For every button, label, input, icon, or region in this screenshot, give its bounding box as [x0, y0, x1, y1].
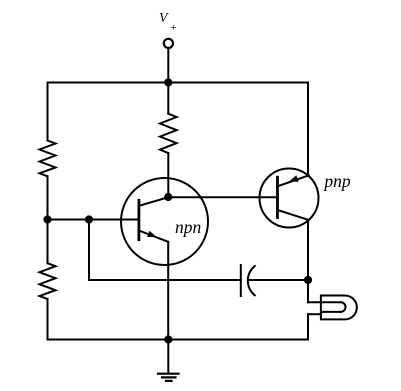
svg-text:+: + [170, 22, 177, 34]
svg-text:pnp: pnp [322, 171, 351, 191]
svg-text:npn: npn [175, 217, 202, 237]
svg-text:V: V [159, 11, 169, 26]
